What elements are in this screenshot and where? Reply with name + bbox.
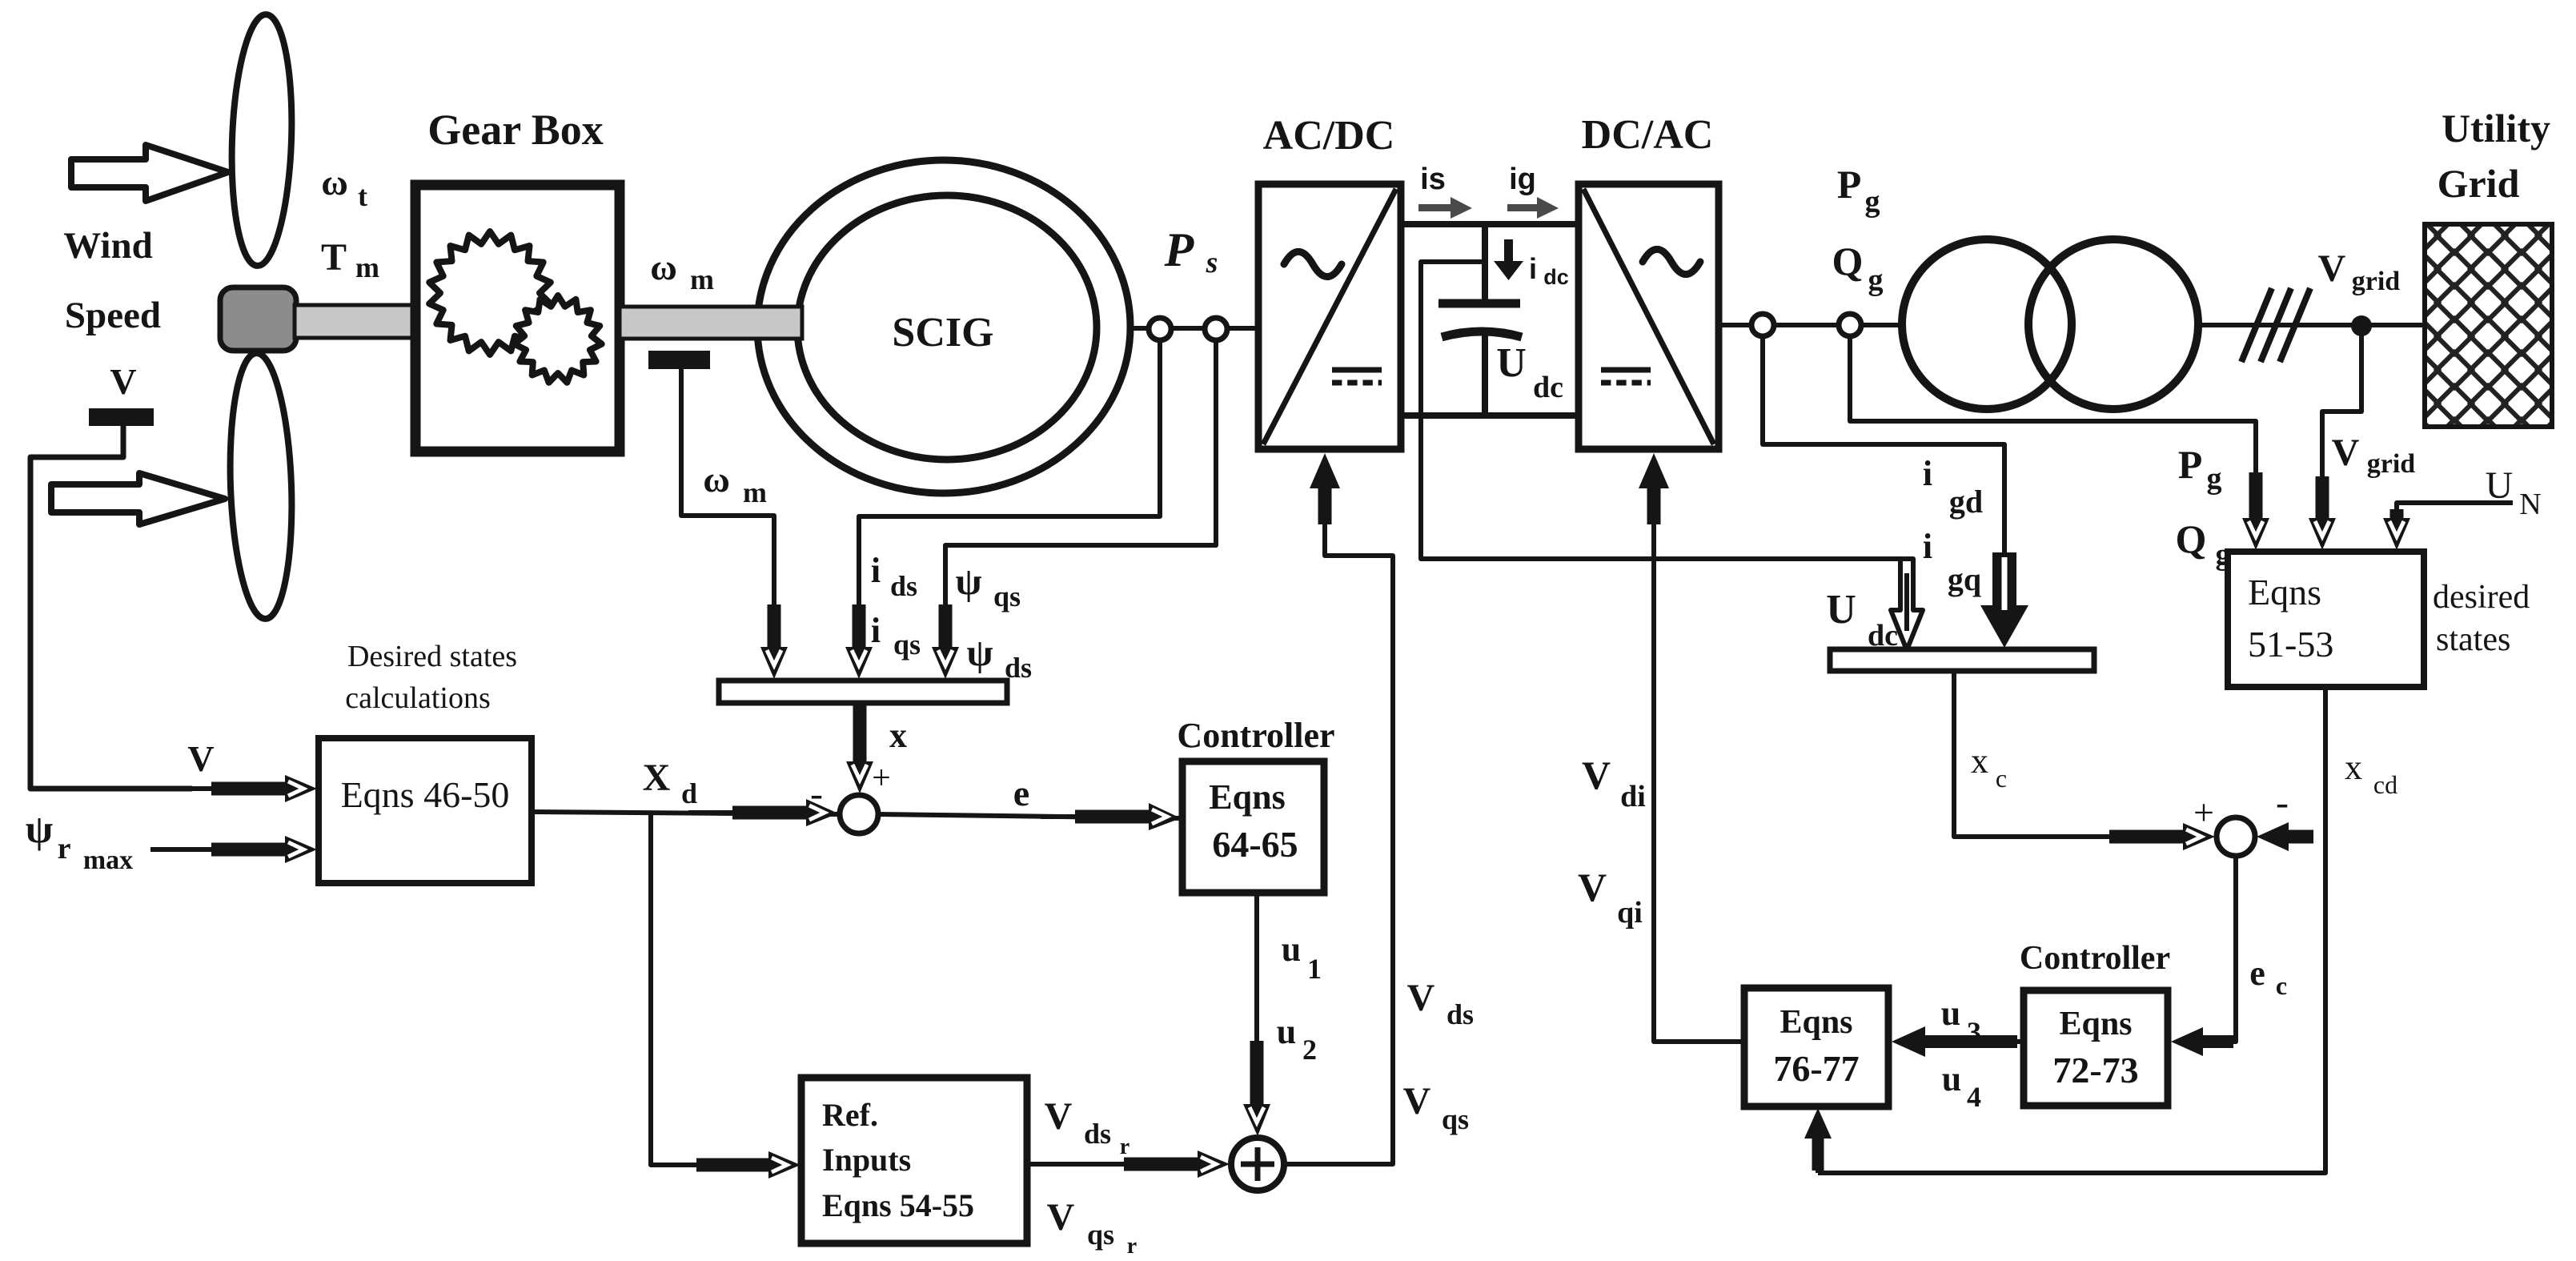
gear box bbox=[415, 185, 620, 452]
arrow i_s bbox=[1418, 197, 1472, 219]
svg-text:Eqns: Eqns bbox=[2248, 572, 2321, 612]
svg-text:m: m bbox=[355, 251, 379, 283]
svg-text:x: x bbox=[2345, 748, 2362, 787]
svg-text:i: i bbox=[1923, 454, 1932, 493]
svg-text:gd: gd bbox=[1949, 484, 1983, 520]
svg-text:Inputs: Inputs bbox=[822, 1142, 911, 1178]
arrow V_ds V_qs into AC/DC bbox=[1322, 523, 1327, 530]
svg-text:i: i bbox=[1529, 252, 1537, 285]
arrow i_dc bbox=[1494, 239, 1523, 280]
svg-text:+: + bbox=[2193, 792, 2214, 833]
wire omega_m to bus bbox=[681, 369, 774, 608]
svg-text:1: 1 bbox=[1307, 953, 1322, 985]
svg-text:ω: ω bbox=[650, 247, 677, 287]
transformer secondary bbox=[2028, 239, 2198, 409]
svg-text:i: i bbox=[871, 551, 881, 590]
svg-text:calculations: calculations bbox=[345, 681, 490, 715]
node stator b bbox=[1205, 318, 1227, 340]
svg-text:is: is bbox=[1420, 163, 1446, 196]
svg-text:ds: ds bbox=[1446, 998, 1474, 1030]
svg-text:qs: qs bbox=[1087, 1219, 1114, 1251]
svg-text:r: r bbox=[58, 832, 71, 865]
svg-text:s: s bbox=[1206, 246, 1218, 279]
svg-text:c: c bbox=[1996, 764, 2007, 793]
svg-text:d: d bbox=[681, 777, 697, 809]
svg-text:c: c bbox=[2276, 971, 2287, 1000]
svg-text:ds: ds bbox=[1084, 1118, 1111, 1150]
arrow V_di V_qi into DC/AC bbox=[1651, 523, 1656, 530]
measurement bus bar stator bbox=[719, 681, 1007, 703]
arrow i_g bbox=[1507, 197, 1559, 219]
wind speed lower arrow bbox=[51, 473, 225, 524]
svg-text:ψ: ψ bbox=[966, 632, 993, 674]
svg-text:dc: dc bbox=[1543, 265, 1569, 289]
utility grid block bbox=[2425, 224, 2552, 427]
arrow u1 u2 into summer bbox=[1250, 1041, 1264, 1109]
svg-text:DC/AC: DC/AC bbox=[1582, 112, 1714, 158]
wire V_ds V_qs rail bbox=[1284, 530, 1393, 1164]
block controller Eqns 72-73 bbox=[2024, 990, 2168, 1106]
svg-text:X: X bbox=[643, 757, 671, 799]
svg-text:u: u bbox=[1942, 1059, 1961, 1098]
node V_grid bbox=[2351, 315, 2372, 336]
svg-text:Eqns: Eqns bbox=[1209, 777, 1285, 817]
speed sensor bar bbox=[648, 351, 710, 369]
wind speed upper arrow bbox=[71, 145, 228, 201]
svg-text:+: + bbox=[872, 760, 891, 797]
converter AC/DC box bbox=[1258, 184, 1401, 449]
wire U_N bbox=[2397, 503, 2513, 512]
svg-text:x: x bbox=[889, 716, 907, 755]
wire i_gd i_gq tap bbox=[1763, 336, 2004, 552]
low-speed shaft bbox=[295, 305, 416, 338]
wire X_d bbox=[532, 812, 840, 814]
svg-text:64-65: 64-65 bbox=[1212, 824, 1298, 865]
svg-text:g: g bbox=[1868, 263, 1884, 297]
svg-text:P: P bbox=[2178, 442, 2203, 487]
svg-text:dc: dc bbox=[1533, 371, 1563, 404]
svg-text:ig: ig bbox=[1509, 163, 1536, 196]
svg-text:V: V bbox=[1407, 977, 1435, 1019]
wind turbine bottom blade bbox=[226, 352, 296, 620]
capacitor top lead bbox=[1482, 227, 1488, 301]
converter DC/AC diagonal bbox=[1583, 189, 1714, 444]
wire e_c bbox=[2229, 856, 2236, 1042]
svg-text:u: u bbox=[1277, 1012, 1296, 1051]
svg-text:3: 3 bbox=[1967, 1016, 1981, 1048]
svg-text:Eqns 46-50: Eqns 46-50 bbox=[341, 774, 510, 815]
node stator a bbox=[1149, 318, 1171, 340]
block Eqns 51-53 bbox=[2228, 552, 2424, 687]
wire psi_qs psi_ds tap bbox=[945, 340, 1216, 610]
arrow psi_qs psi_ds into bus bbox=[939, 604, 953, 652]
wire i_ds i_qs tap bbox=[859, 340, 1160, 610]
wire u1 u2 bbox=[1254, 893, 1259, 1065]
svg-text:T: T bbox=[321, 236, 347, 279]
svg-text:V: V bbox=[2318, 247, 2346, 290]
block Ref Inputs Eqns 54-55 bbox=[801, 1078, 1027, 1243]
svg-text:r: r bbox=[1120, 1134, 1130, 1159]
arrow V input bbox=[192, 786, 213, 791]
converter DC/AC sine bbox=[1643, 249, 1700, 274]
svg-text:qs: qs bbox=[893, 628, 921, 661]
wire SCIG to AC/DC bbox=[1127, 326, 1258, 331]
svg-text:g: g bbox=[1865, 185, 1880, 219]
svg-text:Utility: Utility bbox=[2442, 106, 2550, 151]
capacitor bottom plate bbox=[1442, 331, 1522, 337]
svg-text:u: u bbox=[1282, 930, 1301, 969]
wire transformer to grid bbox=[2198, 323, 2425, 327]
svg-text:m: m bbox=[690, 263, 714, 295]
svg-text:Eqns: Eqns bbox=[2059, 1006, 2132, 1042]
wire dc link bottom bbox=[1401, 412, 1579, 419]
wire x_cd bbox=[1818, 687, 2325, 1173]
svg-text:P: P bbox=[1837, 162, 1862, 207]
arrow e_c into Eqns72-73 bbox=[2198, 1035, 2233, 1048]
arrow x_cd into junction2 bbox=[2284, 830, 2313, 844]
svg-text:Desired states: Desired states bbox=[347, 640, 517, 673]
svg-text:51-53: 51-53 bbox=[2248, 624, 2333, 665]
svg-text:Controller: Controller bbox=[1177, 716, 1334, 755]
arrow U_N into Eqns51-53 bbox=[2390, 509, 2404, 523]
svg-text:g: g bbox=[2207, 462, 2222, 496]
arrow e into controller bbox=[1041, 814, 1077, 819]
arrow i_gd i_gq into bus bbox=[1980, 552, 2028, 648]
svg-text:4: 4 bbox=[1967, 1081, 1981, 1113]
svg-text:V: V bbox=[2332, 432, 2360, 474]
arrow V_dsr into summer bbox=[1027, 1162, 1125, 1167]
svg-text:ω: ω bbox=[703, 459, 730, 500]
svg-text:V: V bbox=[1045, 1095, 1073, 1138]
gear large bbox=[429, 231, 551, 355]
svg-text:P: P bbox=[1164, 223, 1195, 276]
svg-text:qs: qs bbox=[1442, 1103, 1469, 1135]
arrow X_d into Ref Inputs bbox=[696, 1159, 773, 1172]
svg-text:ω: ω bbox=[321, 162, 348, 203]
block Eqns 76-77 bbox=[1744, 988, 1888, 1106]
three-phase slashes bbox=[2241, 288, 2272, 362]
measurement bus bar grid bbox=[1830, 649, 2094, 671]
svg-text:Speed: Speed bbox=[65, 295, 161, 336]
arrow feedback into Eqns76-77 bbox=[1816, 1169, 1820, 1173]
turbine hub bbox=[220, 287, 296, 351]
svg-text:V: V bbox=[110, 361, 136, 402]
gear small bbox=[514, 295, 601, 383]
summing junction e bbox=[840, 795, 878, 833]
svg-text:72-73: 72-73 bbox=[2052, 1050, 2138, 1090]
transformer primary bbox=[1902, 239, 2072, 409]
svg-text:Q: Q bbox=[2176, 516, 2207, 561]
high-speed shaft bbox=[620, 307, 802, 339]
svg-text:ψ: ψ bbox=[955, 560, 981, 603]
svg-text:76-77: 76-77 bbox=[1773, 1048, 1859, 1089]
svg-text:grid: grid bbox=[2367, 449, 2416, 479]
svg-text:Grid: Grid bbox=[2438, 161, 2520, 206]
svg-text:e: e bbox=[1013, 773, 1029, 813]
svg-text:i: i bbox=[871, 611, 881, 650]
node grid a bbox=[1751, 314, 1774, 336]
svg-text:Controller: Controller bbox=[2020, 940, 2170, 977]
svg-text:qi: qi bbox=[1617, 896, 1643, 930]
arrow psi_r_max input bbox=[150, 847, 213, 852]
wire dc link top bbox=[1401, 221, 1579, 227]
arrow u3 u4 bbox=[2016, 1039, 2024, 1044]
converter DC/AC box bbox=[1579, 184, 1719, 449]
svg-text:V: V bbox=[1047, 1196, 1075, 1239]
wire anemometer to Eqns 46-50 bbox=[30, 426, 192, 789]
svg-text:Gear Box: Gear Box bbox=[427, 106, 603, 154]
arrow U_dc hollow bbox=[1891, 559, 1923, 650]
svg-text:V: V bbox=[1578, 865, 1607, 910]
svg-text:V: V bbox=[1582, 753, 1611, 797]
capacitor bottom lead bbox=[1482, 335, 1488, 414]
svg-text:SCIG: SCIG bbox=[892, 310, 993, 355]
wire DC/AC to transformer bbox=[1719, 323, 1904, 327]
arrow P_g Q_g into Eqns51-53 bbox=[2249, 472, 2263, 523]
summing junction V bbox=[1231, 1138, 1284, 1191]
arrow x out of bus bbox=[853, 703, 867, 766]
converter AC/DC sine bbox=[1284, 251, 1342, 276]
converter DC/AC dc symbol bbox=[1601, 367, 1651, 373]
svg-text:Q: Q bbox=[1832, 239, 1864, 283]
arrow V_grid into Eqns51-53 bbox=[2316, 476, 2329, 523]
SCIG generator inner bbox=[797, 195, 1097, 460]
converter AC/DC diagonal bbox=[1263, 189, 1396, 444]
block controller Eqns 64-65 bbox=[1182, 761, 1324, 893]
arrow X_d into junction1 bbox=[688, 810, 734, 815]
svg-text:cd: cd bbox=[2373, 770, 2397, 799]
svg-text:m: m bbox=[743, 476, 767, 508]
svg-text:e: e bbox=[2249, 954, 2265, 993]
svg-text:-: - bbox=[2276, 781, 2289, 824]
wind turbine top blade bbox=[228, 14, 296, 267]
svg-text:U: U bbox=[2486, 464, 2514, 507]
svg-text:U: U bbox=[1826, 587, 1856, 633]
svg-text:U: U bbox=[1496, 340, 1527, 386]
SCIG generator outer bbox=[757, 160, 1130, 493]
wire P_g Q_g tap bbox=[1850, 336, 2256, 474]
svg-text:Eqns: Eqns bbox=[1780, 1004, 1852, 1041]
svg-text:x: x bbox=[1971, 741, 1988, 781]
svg-text:max: max bbox=[83, 845, 133, 875]
block Eqns 46-50 bbox=[319, 738, 532, 883]
svg-text:qs: qs bbox=[993, 580, 1021, 612]
converter AC/DC dc symbol bbox=[1332, 367, 1382, 373]
svg-text:t: t bbox=[358, 180, 367, 212]
svg-text:Wind: Wind bbox=[63, 225, 153, 267]
svg-text:i: i bbox=[1923, 527, 1932, 566]
capacitor top plate bbox=[1438, 299, 1520, 308]
wire V_grid tap bbox=[2322, 335, 2361, 480]
svg-text:u: u bbox=[1941, 994, 1960, 1033]
svg-text:Eqns 54-55: Eqns 54-55 bbox=[822, 1187, 974, 1223]
svg-text:V: V bbox=[187, 738, 214, 779]
svg-text:V: V bbox=[1403, 1080, 1431, 1122]
svg-text:N: N bbox=[2519, 488, 2541, 521]
wire V_di V_qi rail bbox=[1654, 530, 1744, 1042]
svg-text:Ref.: Ref. bbox=[822, 1097, 878, 1133]
svg-text:gq: gq bbox=[1948, 561, 1981, 597]
summing junction ec bbox=[2217, 817, 2255, 856]
svg-text:2: 2 bbox=[1302, 1034, 1317, 1066]
anemometer sensor bar bbox=[89, 408, 154, 426]
svg-text:di: di bbox=[1620, 780, 1646, 813]
arrow omega_m into bus bbox=[768, 604, 781, 652]
wire X_d branch to Ref Inputs bbox=[651, 812, 704, 1165]
svg-text:r: r bbox=[1127, 1234, 1137, 1259]
svg-text:desired: desired bbox=[2433, 579, 2530, 616]
node grid b bbox=[1839, 314, 1861, 336]
svg-text:ds: ds bbox=[890, 570, 917, 602]
wire U_dc tap bbox=[1421, 262, 1907, 559]
wire e bbox=[878, 814, 1182, 818]
wire x_c bbox=[1954, 671, 2113, 837]
svg-text:ψ: ψ bbox=[26, 806, 53, 851]
svg-text:AC/DC: AC/DC bbox=[1263, 113, 1395, 159]
arrow i_ds i_qs into bus bbox=[853, 604, 866, 652]
arrow x_c into junction2 bbox=[2105, 834, 2111, 839]
svg-text:states: states bbox=[2436, 621, 2510, 658]
svg-text:grid: grid bbox=[2352, 267, 2401, 296]
